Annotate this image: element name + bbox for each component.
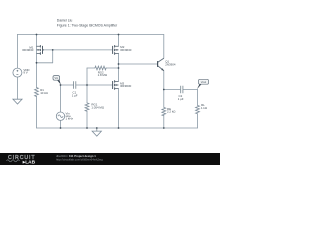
svg-text:1 µF: 1 µF <box>178 97 184 101</box>
transistor M2 IRF9630 (PMOS) <box>113 45 119 55</box>
wire: M1 column rail to M1 source <box>36 35 38 47</box>
transistor M3 IRF9630 <box>113 80 119 90</box>
svg-text:2.2 kΩ: 2.2 kΩ <box>167 110 176 114</box>
wire: bottom ground rail <box>37 127 198 129</box>
svg-text:9 V: 9 V <box>23 70 27 74</box>
node: rail/M1 <box>36 34 38 36</box>
resistor R1 10k <box>35 87 39 97</box>
wire: VDD column from rail to V1 <box>16 35 18 69</box>
footer bar <box>0 153 220 165</box>
node: RE / rail <box>163 127 165 129</box>
wire: M2 drain to M3 drain node <box>118 53 120 81</box>
node: stage1 out / base <box>118 63 120 65</box>
svg-text:IRF9630: IRF9630 <box>120 48 131 52</box>
wire: RG2 riser <box>86 68 88 85</box>
wire: M1 gate-drain tie horizontal <box>37 62 53 64</box>
wire: RG1 column top <box>86 85 88 103</box>
wire: gate bus M1 to M2 <box>43 49 113 51</box>
M2 bulk arrow <box>115 49 117 51</box>
node: gate of M3 <box>86 84 88 86</box>
svg-text:2N3904: 2N3904 <box>165 62 176 66</box>
wire: Q1 emitter column to RE <box>163 71 165 107</box>
svg-text:1.8 MΩ: 1.8 MΩ <box>98 73 108 77</box>
voltage source V2 Vin sine 1kHz <box>56 112 64 120</box>
svg-text:▸LAB: ▸LAB <box>22 159 36 165</box>
wire: RG2 row right <box>106 67 119 69</box>
node: M3 / rail <box>118 127 120 129</box>
M1 bulk arrow <box>38 49 40 51</box>
svg-text:Vout: Vout <box>201 80 207 84</box>
M3 bulk arrow <box>116 84 118 86</box>
svg-text:IRF9630: IRF9630 <box>120 84 131 88</box>
wire: M1 gate-drain tie vertical <box>52 50 54 63</box>
resistor RG1 <box>85 103 89 112</box>
node: rail/M2 <box>118 34 120 36</box>
wire: Q1 collector to top rail <box>163 35 165 59</box>
transistor M1 IRF9630 (PMOS) <box>37 45 45 55</box>
wire: Vin node to C1 <box>61 84 74 86</box>
wire: RE bottom to rail <box>163 116 165 129</box>
node flag Vin <box>53 76 61 85</box>
node: emitter / C2 <box>163 89 165 91</box>
node: RG1 / rail <box>86 127 88 129</box>
wire: V1 to ground GND1 <box>16 77 18 99</box>
junction dots <box>36 34 165 129</box>
svg-text:1 kHz: 1 kHz <box>66 117 74 121</box>
wire: RG2 row left <box>87 67 95 69</box>
node: Vin/C1 <box>60 84 62 86</box>
voltage source V1 VDD 9V <box>13 68 22 77</box>
resistor RE <box>162 107 166 116</box>
svg-text:IRF9630: IRF9630 <box>22 48 33 52</box>
svg-text:Vin: Vin <box>54 76 58 80</box>
node flag Vout <box>197 79 209 89</box>
wire: RL bottom to rail <box>197 114 199 128</box>
node: V2 / rail <box>60 127 62 129</box>
ground GND2 on bottom rail <box>92 128 101 136</box>
svg-text:1 µF: 1 µF <box>72 93 78 97</box>
wire: top supply rail <box>17 34 163 36</box>
wire: M3 source to bottom rail <box>118 89 120 129</box>
capacitor C1 1uF <box>74 81 76 89</box>
node: M1 gate tie <box>52 49 54 51</box>
wire: RG1 bottom to rail <box>86 112 88 129</box>
node: GND2 / rail <box>96 127 98 129</box>
svg-text:Daniel Liu: Daniel Liu <box>57 19 73 23</box>
svg-text:10 kΩ: 10 kΩ <box>40 91 48 95</box>
capacitor C2 1uF <box>181 86 183 93</box>
footer logo waveform <box>7 160 20 162</box>
wire: M1 drain down to R1 <box>36 63 38 87</box>
node: RG2 / drain <box>118 67 120 69</box>
resistor RL <box>196 105 200 114</box>
wire: R1 bottom to bottom rail <box>36 97 38 128</box>
transistor Q1 2N3904 (NPN) <box>158 58 164 70</box>
resistor RG2 1.8M (horizontal) <box>95 66 107 70</box>
wire: stage1 output to Q1 base <box>119 63 158 65</box>
svg-text:Figure 1: Two-Stage BiCMOS Amp: Figure 1: Two-Stage BiCMOS Amplifier <box>57 23 118 27</box>
ground GND1 <box>13 99 22 104</box>
wire: C2 to Vout corner <box>183 89 197 91</box>
wire: Vin node down to V2 <box>60 85 62 112</box>
wire: Vout column down to RL <box>197 90 199 106</box>
wire: M1 channel column <box>36 46 38 63</box>
svg-text:1.054 MΩ: 1.054 MΩ <box>91 106 104 110</box>
wire: emitter node to C2 <box>164 89 180 91</box>
svg-text:1 kΩ: 1 kΩ <box>201 106 208 110</box>
svg-text:http://circuitlab.com/c6b5mv64: http://circuitlab.com/c6b5mv64mk2wg <box>56 158 103 162</box>
wire: V2 bottom to bottom rail <box>60 120 62 128</box>
wire: M2 column rail to source <box>118 35 120 47</box>
node: M1 drain tie <box>36 62 38 64</box>
wire: C1 to M3 gate <box>76 84 113 86</box>
